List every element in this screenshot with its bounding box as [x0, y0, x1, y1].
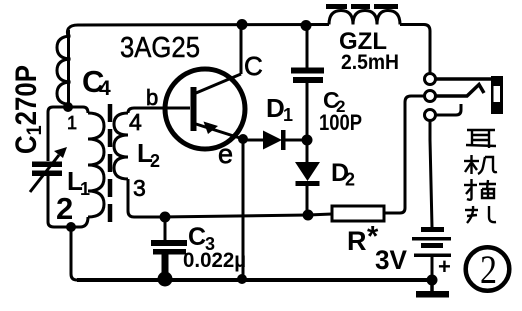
capacitor C4 (coil-drawn) [57, 30, 71, 107]
inductor GZL [329, 11, 400, 25]
diode D1 [243, 130, 307, 150]
label 2.5mH [341, 51, 399, 74]
label D1 [266, 93, 293, 125]
figure number 2 [466, 247, 510, 292]
svg-text:3AG25: 3AG25 [120, 32, 200, 64]
label C [244, 51, 263, 81]
svg-text:1: 1 [80, 179, 90, 199]
svg-text:R: R [347, 226, 367, 256]
svg-text:+: + [438, 254, 451, 279]
ground [416, 280, 449, 298]
wire tank loop [48, 107, 83, 227]
wire tank bottom to ground rail [71, 227, 77, 280]
label L1 [67, 166, 90, 199]
capacitor C1 variable [30, 147, 67, 192]
jack J1 terminal 1 [425, 74, 436, 85]
wire emitter down [242, 139, 245, 279]
node C4/tank junction [63, 102, 73, 112]
svg-text:3V: 3V [375, 245, 407, 275]
GZL core [326, 4, 398, 9]
capacitor C2 [291, 26, 324, 140]
node C3 ground junction [158, 272, 173, 287]
node emitter/ground junction [237, 274, 247, 284]
svg-text:0.022µ: 0.022µ [183, 249, 246, 272]
svg-text:4: 4 [129, 109, 142, 135]
battery BT1 3V [412, 227, 451, 280]
svg-text:D: D [266, 93, 285, 123]
label D2 [331, 159, 355, 190]
resistor R [308, 96, 424, 221]
inductor L1 [80, 107, 104, 227]
wire jack tip lead [436, 77, 492, 81]
jack plug body [491, 76, 503, 114]
jack contact 3 arm [436, 104, 461, 115]
label earphone jack (Chinese) [464, 130, 497, 223]
wire base lead [134, 107, 190, 110]
node D2/R junction [303, 210, 314, 221]
svg-text:b: b [146, 85, 158, 110]
node emitter junction [238, 134, 248, 144]
wire collector to rail [240, 24, 243, 74]
jack J1 terminal 2 [425, 91, 436, 102]
pin 4 [129, 109, 142, 135]
label C1 270P (vertical) [9, 65, 46, 154]
svg-text:2: 2 [480, 247, 497, 292]
svg-text:2: 2 [56, 191, 73, 226]
svg-text:1: 1 [283, 105, 293, 125]
label R* [347, 221, 379, 256]
svg-text:3: 3 [133, 175, 146, 201]
svg-text:2: 2 [150, 151, 160, 171]
label L2 [137, 138, 160, 171]
wire top rail [67, 25, 430, 75]
node collector-rail junction [237, 19, 248, 30]
svg-text:4: 4 [99, 77, 111, 100]
label b [146, 85, 158, 110]
node C3 top junction [160, 212, 171, 223]
label 0.022u [183, 249, 246, 272]
svg-text:C: C [244, 51, 263, 81]
label + [438, 254, 451, 279]
capacitor C3 [151, 217, 187, 279]
label GZL [339, 28, 387, 55]
label C3 [188, 223, 215, 254]
svg-text:2: 2 [345, 170, 355, 190]
pin 1 [67, 113, 77, 133]
node GZL/C2 tap junction [301, 20, 312, 31]
node tank bottom junction [66, 222, 76, 232]
label C2 [323, 87, 345, 116]
wire ground rail [77, 278, 432, 282]
pin 2 [56, 191, 73, 226]
label 3V [375, 245, 407, 275]
svg-text:C1270P: C1270P [9, 65, 46, 154]
svg-text:C: C [188, 223, 206, 251]
node battery/ground-rail junction [427, 275, 438, 286]
svg-text:2.5mH: 2.5mH [341, 51, 399, 74]
diode D2 [295, 140, 320, 215]
wire jack to battery [430, 121, 432, 227]
transformer core [108, 104, 113, 226]
node D1/D2/C2 junction [302, 135, 313, 146]
wire signal rail [160, 215, 308, 217]
transistor Q1 3AG25 [165, 69, 245, 149]
pin 3 [133, 175, 146, 201]
svg-text:e: e [218, 139, 233, 169]
jack J1 terminal 3 [425, 110, 436, 121]
label C4 [82, 64, 111, 100]
svg-text:100P: 100P [319, 110, 362, 135]
label e [218, 139, 233, 169]
label 100P [319, 110, 362, 135]
label 3AG25 [120, 32, 200, 64]
jack contact spring [436, 85, 484, 97]
inductor L2 [114, 108, 160, 217]
svg-text:1: 1 [67, 113, 77, 133]
